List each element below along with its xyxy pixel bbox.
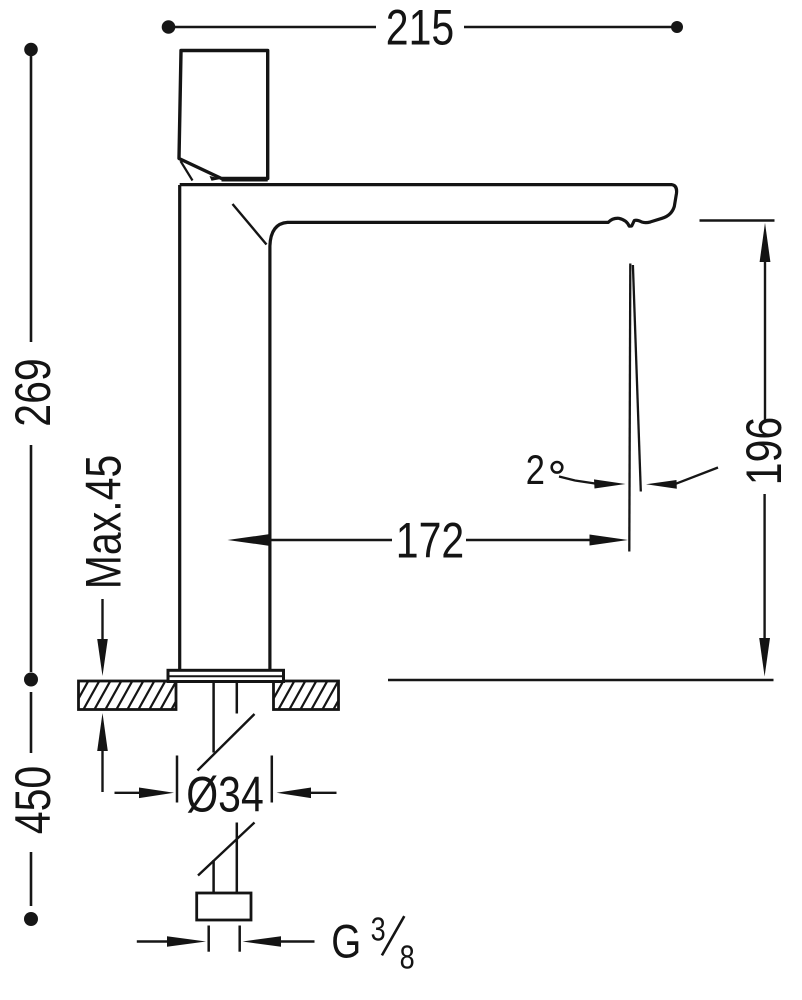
dimension 269 bottom dot [24,673,38,687]
countertop right hatch [266,678,351,712]
thread leader line [198,823,255,876]
thread dimension left arrow [137,936,206,947]
svg-text:2: 2 [526,447,545,494]
Max.45 down arrow [97,599,108,676]
handle bottom seam [222,179,268,182]
dimension 269 line [30,56,33,672]
handle lever outline [179,51,268,179]
dimension O34 right arrow [277,788,337,799]
svg-text:Max.45: Max.45 [76,455,132,589]
dimension 196 reference line top [700,219,775,222]
dimension 196 label [736,417,792,485]
dimension 196 up arrow [760,223,771,420]
dimension 450 label [5,766,61,834]
nut [197,893,251,920]
dimension O34 left arrow [115,788,175,799]
svg-text:G: G [331,916,361,968]
handle lever tip mark [210,176,223,181]
dimension 172 line [269,539,590,541]
supply pipe right lower [236,823,239,893]
supply pipe right upper [236,682,239,714]
dimension 196 down arrow [759,494,770,677]
svg-text:Ø34: Ø34 [186,767,263,823]
2 degree left leader [559,477,626,489]
dimension O34 left tick [176,756,179,803]
base plate inner line [168,675,284,677]
svg-text:8: 8 [400,940,415,976]
svg-text:3: 3 [371,912,386,948]
thread dimension left tick [207,926,210,952]
thread dimension right tick [238,926,241,952]
dimension 172 left arrowhead [228,534,269,545]
countertop left hatch [71,678,189,712]
dimension 215 line [169,26,678,29]
diameter leader line [198,714,255,771]
dimension 450 bottom dot [24,912,38,926]
svg-text:172: 172 [396,513,464,569]
countertop plane line [388,679,774,681]
supply pipe left upper [212,682,215,753]
Max.45 label [76,455,132,589]
handle lever inner line [181,161,193,181]
dimension 269 top dot [24,43,38,57]
Max.45 up arrow [97,713,108,792]
dimension 172 right arrowhead [590,535,629,546]
supply pipe left lower [212,860,215,893]
thread dimension right arrow [243,936,315,947]
2 degree circle [552,462,563,473]
svg-text:196: 196 [736,417,792,485]
svg-text:269: 269 [5,358,61,426]
spout corner break line [233,204,267,245]
dimension 215 left dot [162,20,176,34]
base plate [168,670,284,681]
dimension O34 right tick [271,756,274,803]
dimension 215 right dot [671,21,683,33]
2 degree right leader [646,468,718,489]
faucet body left edge [178,185,181,671]
svg-text:215: 215 [386,0,454,55]
fraction slash [382,916,404,955]
dimension 269 label [5,358,61,426]
water stream left line [629,264,630,552]
water stream right line (2 deg) [633,265,641,492]
svg-text:450: 450 [5,766,61,834]
dimension 450 line [30,692,33,906]
faucet body and spout outline [180,185,677,671]
